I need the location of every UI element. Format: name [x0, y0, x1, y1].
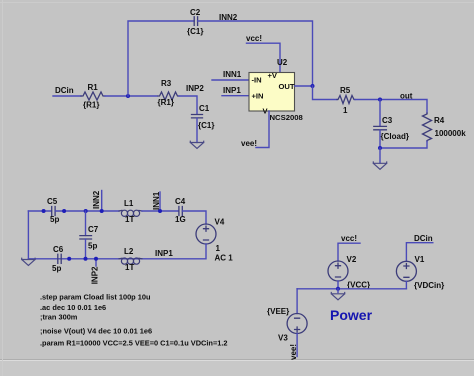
- svg-text:.param R1=10000 VCC=2.5 VEE=0: .param R1=10000 VCC=2.5 VEE=0 C1=0.1u VD…: [40, 339, 228, 348]
- svg-text:U2: U2: [277, 58, 288, 67]
- svg-text:V4: V4: [215, 218, 225, 227]
- svg-text:out: out: [400, 92, 413, 101]
- svg-text:.step param Cload list 100p 10: .step param Cload list 100p 10u: [40, 293, 151, 302]
- svg-text:-IN: -IN: [252, 75, 262, 84]
- ground: [331, 293, 344, 300]
- svg-text:.ac dec 10 0.01 1e6: .ac dec 10 0.01 1e6: [40, 303, 106, 312]
- wire: [85, 239, 87, 259]
- wire: [179, 96, 197, 114]
- ground: [190, 141, 203, 148]
- wire: [198, 21, 313, 86]
- svg-text:AC 1: AC 1: [215, 254, 234, 263]
- svg-text:1: 1: [216, 244, 221, 253]
- wire: [196, 118, 198, 143]
- wire: [355, 100, 427, 114]
- wire: [405, 281, 407, 289]
- node junction OUT: [311, 84, 315, 88]
- svg-text:vcc!: vcc!: [246, 34, 262, 43]
- svg-text:;noise V(out) V4 dec 10 0.01 1: ;noise V(out) V4 dec 10 0.01 1e6: [40, 327, 152, 336]
- wire: [379, 148, 381, 163]
- window bevel bottom bar: [0, 361, 474, 376]
- svg-text:NCS2008: NCS2008: [270, 113, 304, 122]
- svg-text:INN1: INN1: [152, 191, 161, 210]
- svg-text:INP1: INP1: [223, 86, 241, 95]
- wire: [380, 142, 427, 149]
- svg-text:C2: C2: [190, 8, 201, 17]
- resistor R3: [158, 92, 179, 100]
- capacitor C3: [379, 100, 381, 127]
- wire: [212, 79, 249, 81]
- svg-text:1: 1: [343, 106, 348, 115]
- svg-text:INP2: INP2: [186, 84, 204, 93]
- wire: [53, 95, 81, 97]
- svg-text:{Cload}: {Cload}: [381, 132, 409, 141]
- svg-text:100000k: 100000k: [435, 129, 467, 138]
- wire: [247, 43, 281, 72]
- node junction: [126, 94, 130, 98]
- svg-text:vcc!: vcc!: [341, 234, 357, 243]
- svg-text:+IN: +IN: [252, 91, 264, 100]
- wire left vertical: [27, 211, 29, 259]
- svg-text:C3: C3: [382, 116, 393, 125]
- resistor R5: [337, 96, 355, 104]
- wire stub: [337, 289, 339, 293]
- svg-text:INN2: INN2: [92, 190, 101, 209]
- wire: [406, 243, 432, 262]
- svg-text:R1: R1: [88, 83, 99, 92]
- svg-text:{R1}: {R1}: [158, 98, 174, 107]
- svg-text:C6: C6: [53, 245, 64, 254]
- ground: [373, 162, 386, 169]
- svg-text:V1: V1: [415, 255, 425, 264]
- svg-text:INN1: INN1: [223, 70, 242, 79]
- wire: [142, 210, 179, 212]
- svg-text:L1: L1: [124, 199, 134, 208]
- svg-text:C7: C7: [88, 225, 99, 234]
- wire: [296, 334, 298, 357]
- wire: [296, 289, 298, 314]
- capacitor C2: [194, 17, 197, 26]
- svg-text:1G: 1G: [175, 215, 186, 224]
- svg-text:{VDCin}: {VDCin}: [414, 281, 444, 290]
- wire: [28, 210, 51, 212]
- svg-text:V2: V2: [347, 255, 357, 264]
- node junction: [378, 146, 382, 150]
- wire: [313, 86, 338, 100]
- svg-text:DCin: DCin: [55, 86, 74, 95]
- node INN2 stub: [101, 191, 103, 212]
- svg-text:5p: 5p: [50, 215, 59, 224]
- op-amp U2: [249, 58, 304, 122]
- resistor R4: [423, 113, 432, 142]
- wire: [55, 210, 119, 212]
- node junction: [42, 209, 46, 213]
- svg-text:V3: V3: [278, 334, 288, 343]
- capacitor C1: [192, 115, 203, 118]
- capacitor C5: [52, 207, 55, 216]
- svg-text:R3: R3: [161, 79, 172, 88]
- svg-text:OUT: OUT: [279, 82, 295, 91]
- svg-text:L2: L2: [124, 247, 134, 256]
- capacitor C4: [179, 207, 182, 216]
- svg-text:Power: Power: [330, 307, 373, 323]
- node junction: [67, 257, 71, 261]
- svg-text:R4: R4: [434, 116, 445, 125]
- wire: [105, 95, 157, 97]
- wire: [28, 244, 206, 259]
- svg-text:vee!: vee!: [241, 139, 257, 148]
- node INP2 stub: [95, 259, 97, 266]
- capacitor C7: [85, 211, 87, 235]
- node junction: [84, 257, 88, 261]
- svg-text:C5: C5: [47, 197, 58, 206]
- svg-text:C4: C4: [175, 197, 186, 206]
- svg-text:C1: C1: [199, 104, 210, 113]
- inductor L2: [119, 258, 142, 264]
- wire: [338, 243, 360, 261]
- wire: [295, 85, 313, 87]
- wire: [337, 281, 339, 289]
- svg-text:1T: 1T: [125, 263, 134, 272]
- svg-text:R5: R5: [340, 86, 351, 95]
- svg-text:{VEE}: {VEE}: [267, 307, 289, 316]
- node junction: [336, 287, 340, 291]
- voltage source V4: [196, 224, 216, 244]
- svg-text:{C1}: {C1}: [187, 27, 203, 36]
- inductor L1: [119, 210, 142, 216]
- wire vee stub: [256, 111, 269, 148]
- svg-text:INP1: INP1: [155, 249, 173, 258]
- voltage source V1: [396, 261, 416, 281]
- ground: [22, 258, 35, 265]
- node junction out: [378, 98, 382, 102]
- wire bus: [297, 288, 406, 290]
- svg-text:{C1}: {C1}: [198, 121, 214, 130]
- node junction: [84, 209, 88, 213]
- svg-text:1T: 1T: [125, 215, 134, 224]
- voltage source V3: [287, 314, 307, 334]
- resistor R1: [81, 92, 105, 100]
- voltage source V2: [328, 261, 348, 281]
- svg-text:5p: 5p: [52, 264, 61, 273]
- node INN1 stub: [159, 192, 161, 211]
- svg-text:INP2: INP2: [91, 266, 100, 284]
- node junction: [62, 209, 66, 213]
- svg-text:;tran 300m: ;tran 300m: [40, 313, 78, 322]
- wire: [128, 21, 194, 96]
- capacitor C6: [58, 254, 61, 263]
- svg-text:DCin: DCin: [414, 234, 433, 243]
- svg-text:vee!: vee!: [289, 344, 298, 360]
- svg-text:+V: +V: [268, 71, 278, 80]
- wire: [222, 95, 249, 97]
- svg-text:5p: 5p: [88, 242, 97, 251]
- wire: [182, 211, 206, 224]
- wire: [379, 130, 381, 148]
- svg-text:{R1}: {R1}: [83, 101, 99, 110]
